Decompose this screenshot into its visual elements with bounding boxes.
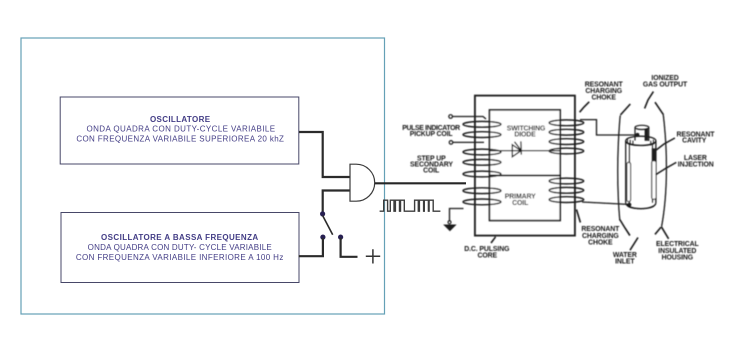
laser injection slot right [652, 161, 656, 200]
housing rim stroke bottom-left [620, 220, 630, 236]
wire box U1 to gate input A [299, 132, 350, 177]
ionized gas output tube [635, 125, 649, 141]
svg-text:INLET: INLET [615, 259, 635, 266]
wire ground lead to coil [450, 209, 464, 222]
svg-text:INJECTION: INJECTION [678, 162, 714, 169]
oscillator box U2 [61, 213, 299, 283]
ground symbol [448, 221, 451, 224]
switching diode D1 [512, 141, 521, 156]
pulse indicator pickup coil label [402, 125, 460, 138]
svg-text:CORE: CORE [478, 252, 498, 259]
housing rim stroke top-left [620, 104, 630, 115]
wire gate output to transformer [375, 182, 466, 184]
oscillator box U1 [60, 97, 299, 164]
switch SW1 blade [323, 216, 333, 235]
svg-text:GAS OUTPUT: GAS OUTPUT [643, 82, 688, 89]
cavity inner wall left [628, 144, 630, 203]
oscillator U2 label [76, 233, 284, 262]
switching diode label [507, 125, 546, 138]
resonant charging choke L4 (bottom right) [549, 178, 584, 202]
cavity inner wall right [652, 144, 654, 203]
wire box U2 to switch dot B [299, 238, 323, 256]
housing arc left [618, 116, 620, 221]
switch SW1 node dot B [320, 235, 325, 240]
wire choke L3 to cavity [580, 120, 637, 135]
svg-text:ONDA QUADRA CON DUTY-CYCLE VAR: ONDA QUADRA CON DUTY-CYCLE VARIABILE [86, 125, 275, 134]
switch SW1 node dot C [338, 235, 343, 240]
leader resonant cavity [656, 138, 675, 150]
cavity rim shading [628, 139, 654, 146]
panel border (cyan box) [21, 38, 385, 314]
transformer outer core rectangle [475, 96, 575, 236]
diode rail wire [490, 150, 561, 152]
laser injection window (dark) [652, 148, 656, 160]
svg-text:CON FREQUENZA VARIABILE INFERI: CON FREQUENZA VARIABILE INFERIORE A 100 … [76, 253, 284, 262]
resonant charging choke L3 (top right) [549, 120, 584, 154]
svg-text:OSCILLATORE A BASSA FREQUENZA: OSCILLATORE A BASSA FREQUENZA [101, 233, 259, 242]
svg-text:OSCILLATORE: OSCILLATORE [150, 115, 211, 124]
housing arc right [662, 115, 667, 227]
resonant cavity label [676, 131, 715, 144]
ground triangle [444, 225, 456, 231]
junction dot at cavity bottom [627, 203, 631, 207]
leader electrical housing [661, 227, 668, 239]
pickup coil L1 [463, 121, 501, 137]
ionized gas output label [643, 75, 688, 89]
housing rim stroke top-right [655, 102, 664, 115]
gas tube shading [645, 129, 649, 141]
leader ionized gas output [645, 92, 654, 109]
electrical insulated housing label [656, 241, 699, 262]
step-up secondary coil L2 [463, 149, 501, 205]
laser injection slot left [627, 163, 631, 202]
leader resonant charging choke top [580, 102, 590, 112]
laser injection label [678, 155, 714, 169]
square wave signal [380, 200, 441, 211]
leader dc pulsing core [491, 237, 496, 243]
resonant cavity cylinder body [626, 136, 656, 209]
water inlet label [613, 252, 637, 266]
pickup coil terminal circle 1 [449, 115, 453, 119]
wire terminal 2 to pickup coil [453, 141, 484, 143]
svg-text:PICKUP COIL: PICKUP COIL [410, 131, 453, 138]
svg-text:DIODE: DIODE [514, 131, 536, 138]
pickup coil terminal circle 2 [449, 141, 453, 145]
svg-text:CHOKE: CHOKE [588, 240, 613, 247]
leader laser injection [656, 162, 677, 174]
primary coil label [505, 194, 536, 208]
leader water inlet [630, 238, 638, 251]
wire switch dot C stub [341, 238, 358, 257]
plus symbol [366, 249, 380, 263]
svg-text:COIL: COIL [423, 168, 439, 175]
inner divider wire [490, 174, 561, 176]
wire terminal 1 to pickup coil [453, 117, 486, 120]
transformer inner core rectangle [490, 110, 561, 221]
wire choke L4 to cavity [582, 202, 628, 204]
leader electrical housing left branch [655, 227, 661, 234]
svg-text:CON FREQUENZA VARIABILE SUPERI: CON FREQUENZA VARIABILE SUPERIOREA 20 kh… [76, 134, 284, 143]
svg-text:CAVITY: CAVITY [682, 138, 707, 145]
AND gate U3 [350, 164, 375, 201]
switch SW1 node dot A [320, 211, 325, 216]
resonant charging choke bottom label [581, 226, 620, 247]
svg-text:COIL: COIL [512, 200, 528, 207]
svg-text:HOUSING: HOUSING [662, 255, 693, 262]
leader resonant charging choke bottom [577, 210, 581, 223]
resonant charging choke top label [585, 81, 624, 101]
svg-text:CHOKE: CHOKE [592, 95, 617, 102]
junction dot at cavity top [635, 133, 639, 137]
svg-text:ONDA QUADRA CON DUTY- CYCLE VA: ONDA QUADRA CON DUTY- CYCLE VARIABILE [88, 243, 272, 252]
step up secondary coil label [410, 155, 453, 174]
dc pulsing core label [464, 246, 509, 259]
wire gate input B [323, 191, 351, 213]
oscillator U1 label [76, 115, 284, 144]
